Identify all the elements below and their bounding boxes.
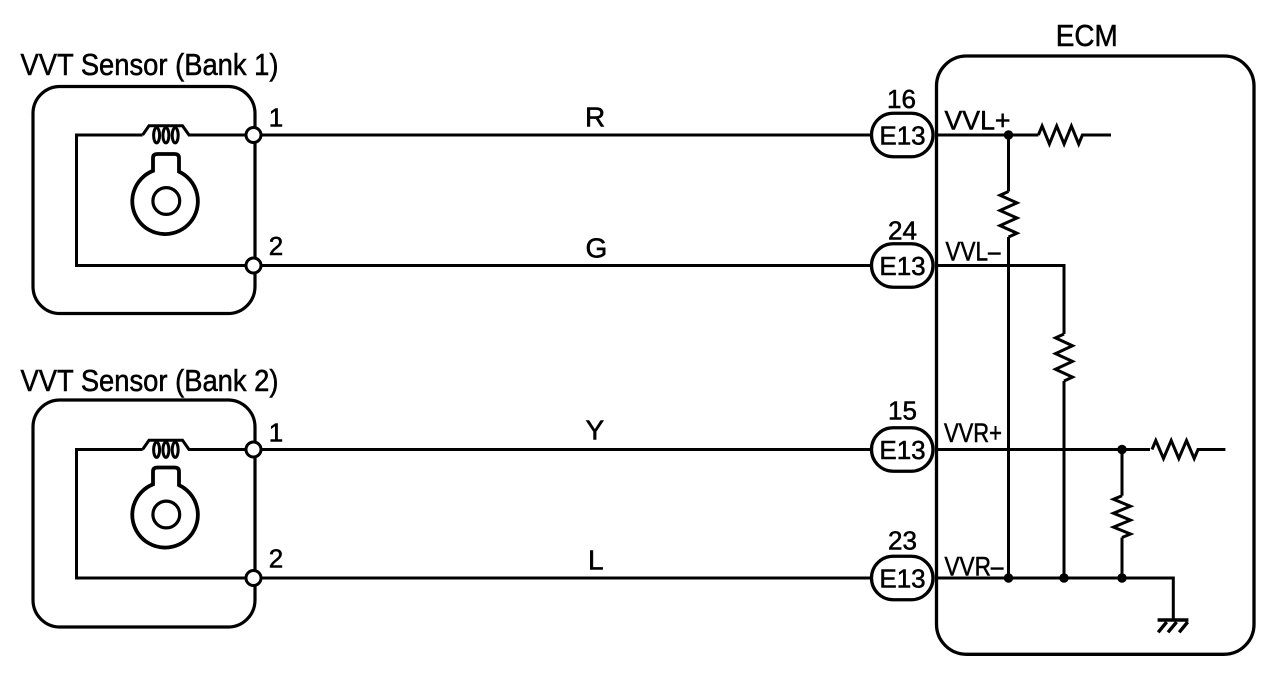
connector body VVT sensor Bank 2 bbox=[33, 400, 255, 627]
svg-text:15: 15 bbox=[888, 396, 917, 426]
pickup sensor symbol Bank 2 bbox=[132, 468, 198, 548]
svg-text:1: 1 bbox=[269, 418, 283, 448]
connector body VVT sensor Bank 1 bbox=[33, 87, 255, 314]
inductor coil Bank 2 bbox=[143, 440, 189, 457]
wire VVR- inside ECM bbox=[936, 578, 1173, 620]
pin 2 terminal Bank 2 bbox=[246, 571, 261, 586]
svg-text:23: 23 bbox=[888, 526, 917, 556]
resistor vertical between VVR+ and VVR- bbox=[1114, 496, 1131, 538]
svg-text:VVL–: VVL– bbox=[946, 237, 1001, 267]
svg-text:VVL+: VVL+ bbox=[945, 106, 1011, 136]
wire VVL- branch continues to VVR- bbox=[1063, 381, 1066, 578]
svg-text:ECM: ECM bbox=[1056, 18, 1118, 53]
wire VVL+ inside ECM bbox=[936, 134, 1038, 137]
ECM box bbox=[937, 56, 1255, 654]
wire VVL- inside ECM bbox=[936, 266, 1064, 335]
svg-text:VVR+: VVR+ bbox=[944, 418, 1002, 448]
ground symbol bbox=[1158, 620, 1189, 632]
junction node VVR- at vline3 bbox=[1117, 573, 1126, 582]
svg-text:2: 2 bbox=[269, 544, 283, 574]
inductor coil Bank 1 bbox=[143, 126, 189, 143]
wire L pin2 to E13-23 bbox=[261, 577, 872, 580]
svg-text:Y: Y bbox=[586, 415, 605, 446]
wire G pin2 to E13-24 bbox=[261, 264, 872, 267]
svg-text:L: L bbox=[588, 545, 604, 576]
wire vertical from VVR+ node down bbox=[1121, 450, 1124, 579]
svg-text:1: 1 bbox=[269, 103, 283, 133]
resistor vertical between VVL+ and VVR- bbox=[1000, 192, 1017, 238]
junction node VVR+ bbox=[1117, 445, 1126, 454]
wire internal loop Bank 2 bbox=[77, 450, 254, 579]
svg-text:16: 16 bbox=[887, 84, 916, 114]
junction node VVR- at vline2 bbox=[1059, 573, 1068, 582]
pin 1 terminal Bank 1 bbox=[246, 128, 261, 143]
connector E13 pin 23 bbox=[872, 556, 934, 600]
svg-text:E13: E13 bbox=[879, 121, 925, 151]
svg-text:24: 24 bbox=[888, 216, 917, 246]
svg-text:E13: E13 bbox=[879, 564, 925, 594]
pin 1 terminal Bank 2 bbox=[246, 442, 261, 457]
resistor horizontal on VVR+ bbox=[1152, 441, 1225, 459]
connector E13 pin 15 bbox=[872, 428, 934, 472]
svg-text:G: G bbox=[586, 233, 608, 264]
svg-text:R: R bbox=[585, 102, 605, 133]
junction node VVR- at vline1 bbox=[1004, 573, 1013, 582]
svg-text:VVT Sensor (Bank 2): VVT Sensor (Bank 2) bbox=[21, 363, 279, 398]
wire R pin1 to E13-16 bbox=[261, 134, 872, 137]
wire VVR+ inside ECM bbox=[936, 448, 1150, 451]
connector E13 pin 24 bbox=[872, 244, 934, 288]
svg-text:E13: E13 bbox=[879, 435, 925, 465]
wire Y pin1 to E13-15 bbox=[261, 448, 872, 451]
wire internal loop Bank 1 bbox=[77, 135, 254, 266]
svg-text:2: 2 bbox=[269, 231, 283, 261]
wire vertical from VVL+ node down bbox=[1007, 135, 1010, 578]
resistor horizontal on VVL+ bbox=[1038, 126, 1111, 144]
connector E13 pin 16 bbox=[872, 113, 934, 157]
svg-text:E13: E13 bbox=[879, 251, 925, 281]
pickup sensor symbol Bank 1 bbox=[132, 154, 198, 234]
junction node VVL+ bbox=[1004, 130, 1013, 139]
pin 2 terminal Bank 1 bbox=[246, 258, 261, 273]
resistor vertical on VVL- branch bbox=[1056, 334, 1073, 381]
svg-text:VVT Sensor (Bank 1): VVT Sensor (Bank 1) bbox=[21, 47, 279, 82]
